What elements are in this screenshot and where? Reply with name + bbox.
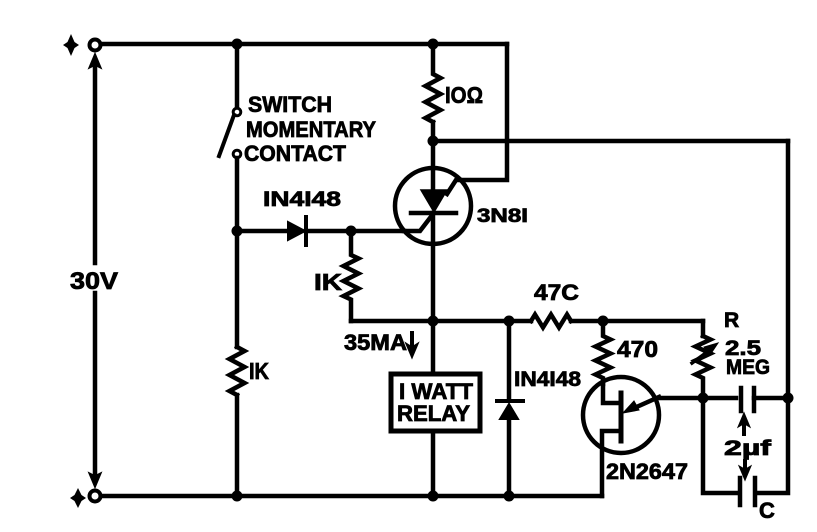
svg-text:IK: IK [249, 358, 269, 384]
wire capacitor loop left [703, 398, 737, 493]
label 10 ohm [445, 82, 483, 108]
wire capacitor loop right [757, 398, 788, 493]
svg-text:IOΩ: IOΩ [445, 82, 483, 108]
node diode cathode junction [346, 226, 357, 237]
node 321/diode2 [504, 316, 515, 327]
svg-text:3N8I: 3N8I [477, 206, 528, 227]
resistor R1 10-ohm [426, 44, 441, 141]
terminal V+ (top left, open circle) [90, 40, 101, 51]
label MOMENTARY [246, 117, 376, 142]
label 2uf with pointer arrows [724, 414, 773, 479]
svg-text:IK: IK [314, 269, 342, 295]
wire diode branch right [306, 229, 404, 234]
node bottom rail / relay [428, 491, 439, 502]
wire diode2 branch [507, 321, 512, 496]
wire anode node to right rail [433, 139, 788, 144]
svg-text:SWITCH: SWITCH [248, 92, 332, 117]
label R 2.5 MEG [724, 309, 770, 379]
node top rail / 10-ohm branch [428, 39, 439, 50]
wire diode branch left [237, 229, 288, 234]
svg-text:2µf: 2µf [724, 437, 773, 460]
terminal V- (bottom left, open circle) [90, 491, 101, 502]
switch S1 momentary contact [219, 108, 241, 158]
diode D1 1N4148 [288, 217, 306, 245]
svg-text:2N2647: 2N2647 [606, 459, 688, 484]
node top rail / switch branch [232, 39, 243, 50]
label 2N2647 [606, 459, 688, 484]
label 3N81 [477, 206, 528, 227]
label 1 WATT RELAY [397, 379, 474, 426]
label CONTACT [244, 141, 347, 166]
30V source arrow line [90, 55, 100, 486]
svg-text:R: R [724, 309, 739, 332]
resistor R4 47C (horizontal) [531, 315, 571, 328]
node bottom rail / left 1K [232, 491, 243, 502]
node anode [428, 136, 439, 147]
svg-text:CONTACT: CONTACT [244, 141, 347, 166]
wire switch branch lower [235, 158, 240, 347]
wire switch branch upper [235, 44, 240, 108]
SCS U1 3N81 [395, 141, 471, 321]
svg-text:RELAY: RELAY [397, 401, 470, 426]
label 1N4148 (D1) [263, 188, 341, 211]
resistor R5 470 [596, 321, 611, 384]
capacitor C2 (lower) [740, 478, 755, 505]
label 47C [534, 280, 579, 305]
label 1N4148 (D2) [514, 368, 581, 391]
svg-text:C: C [759, 498, 775, 523]
node RC top [698, 393, 709, 404]
terminal plus mark (bottom left) [70, 488, 86, 508]
transistor Q1 2N2647 UJT [583, 377, 659, 496]
svg-text:MOMENTARY: MOMENTARY [246, 117, 376, 142]
svg-text:47C: 47C [534, 280, 579, 305]
svg-text:470: 470 [617, 336, 658, 362]
wire emitter to RC node [655, 396, 736, 401]
label 30V [70, 268, 118, 295]
label IK (gate) [314, 269, 342, 295]
svg-text:MEG: MEG [726, 356, 770, 379]
label 470 [617, 336, 658, 362]
wire bottom rail [101, 494, 602, 499]
wire anode gate (to top rail) [447, 44, 507, 194]
terminal plus mark (top left) [63, 34, 79, 56]
svg-text:35MA: 35MA [344, 330, 407, 355]
svg-text:IN4I48: IN4I48 [263, 188, 341, 211]
wire right rail [786, 141, 791, 398]
node 321/470 [598, 316, 609, 327]
label SWITCH [248, 92, 332, 117]
label 35MA with down arrow [344, 330, 418, 357]
wire top rail [101, 42, 507, 47]
label C [759, 498, 775, 523]
svg-text:30V: 30V [70, 268, 118, 295]
node bottom rail / diode2 [504, 491, 515, 502]
resistor R3 1K (gate branch) [344, 231, 359, 321]
wire gate branch horizontal [351, 319, 433, 324]
relay K1 box [391, 321, 480, 496]
capacitor C1 2uf (upper) [741, 388, 788, 411]
diode D2 1N4148 [497, 401, 523, 419]
node RC right [783, 393, 794, 404]
resistor R6 2.5 MEG (variable) [692, 336, 718, 398]
resistor R2 1K (left branch) [230, 347, 245, 496]
svg-text:IN4I48: IN4I48 [514, 368, 581, 391]
node relay top [428, 316, 439, 327]
node diode anode junction [232, 226, 243, 237]
label 1K (left) [249, 358, 269, 384]
wire 2.5MEG top corner [701, 321, 706, 336]
wire 321 rail [433, 319, 703, 324]
